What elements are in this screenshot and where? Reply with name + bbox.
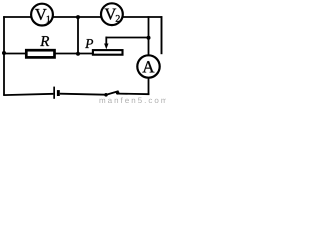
wire: left vertical side [3, 16, 5, 95]
wire: wiper horizontal to ammeter branch [106, 37, 150, 39]
node: wiper wire / ammeter branch junction [147, 36, 151, 40]
watermark [100, 97, 167, 103]
wire: top bus from top-left corner to top-right corner [3, 16, 162, 18]
label P [85, 39, 93, 48]
wire: right vertical from top-right corner down to P right end level [161, 16, 163, 54]
wire: bottom bus left segment to battery [3, 94, 53, 95]
ammeter A [137, 55, 159, 77]
node: top bus / tap vertical junction [76, 15, 80, 19]
switch: lever [106, 91, 118, 95]
voltmeter V2 [101, 3, 123, 25]
label R [40, 36, 49, 46]
wire: tap vertical from top bus down to R-P junction [77, 16, 79, 54]
potentiometer P box [93, 50, 123, 55]
wire: bottom bus right segment switch to ammeter branch [118, 93, 149, 96]
voltmeter V1 [31, 4, 53, 26]
switch: right contact dot [116, 91, 120, 95]
wire: bottom bus middle segment battery to switch [60, 94, 105, 95]
potentiometer wiper arrow [104, 37, 108, 50]
wire: middle row bus [3, 53, 92, 55]
resistor R box [26, 50, 54, 57]
switch: left contact dot [104, 93, 108, 97]
node: middle bus / tap vertical junction [76, 52, 80, 56]
wire: ammeter branch vertical from top bus through ammeter to bottom bus [148, 16, 150, 95]
battery cell: long plate [53, 87, 55, 99]
battery cell: short thick plate [57, 90, 60, 96]
node: left vertical / middle bus junction [2, 51, 6, 55]
